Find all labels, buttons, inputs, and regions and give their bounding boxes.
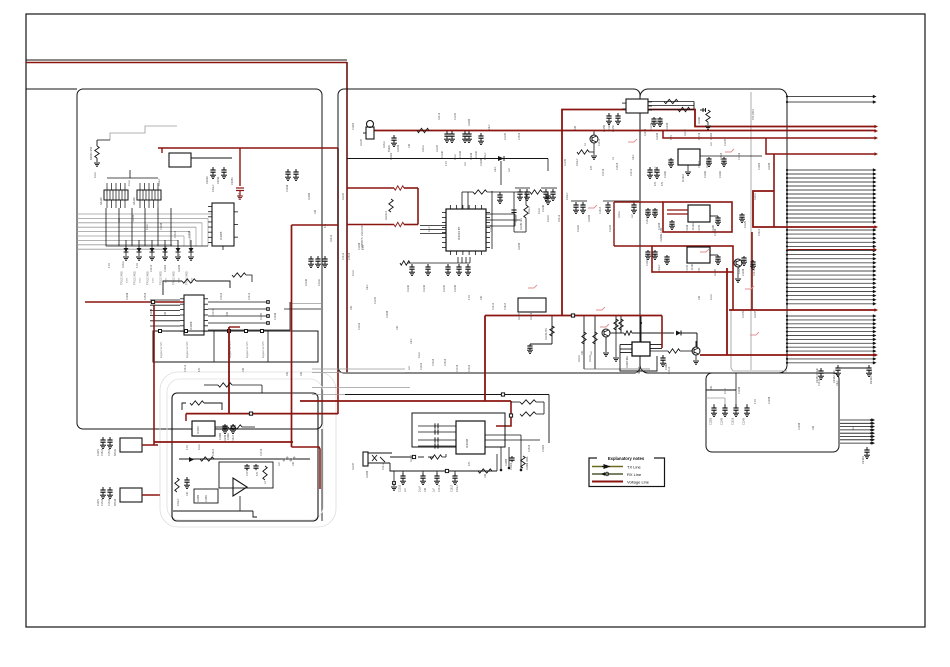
svg-text:0.01uF: 0.01uF: [158, 178, 161, 186]
svg-text:R1096 100K: R1096 100K: [526, 456, 529, 470]
svg-text:0.01uF: 0.01uF: [177, 498, 180, 506]
svg-text:R1311: R1311: [122, 260, 125, 268]
svg-text:C1071: C1071: [97, 498, 100, 506]
svg-text:R1107: R1107: [342, 192, 345, 200]
svg-text:IC1001 BT: IC1001 BT: [457, 226, 461, 240]
svg-text:10K: 10K: [710, 385, 713, 390]
svg-text:10uF: 10uF: [632, 154, 635, 160]
svg-text:R1107: R1107: [714, 268, 717, 276]
svg-text:1uF: 1uF: [464, 161, 467, 166]
svg-text:1uF: 1uF: [631, 213, 634, 218]
svg-text:C1515: C1515: [348, 252, 351, 260]
svg-text:R1005: R1005: [366, 470, 369, 478]
svg-text:4.7K: 4.7K: [362, 245, 365, 250]
svg-text:C1310: C1310: [101, 498, 104, 506]
svg-text:R1311: R1311: [754, 192, 757, 200]
svg-text:keypad sw KP5: keypad sw KP5: [262, 341, 265, 358]
svg-text:C1310: C1310: [490, 224, 493, 232]
svg-text:1K: 1K: [612, 157, 615, 160]
svg-text:10uF: 10uF: [494, 166, 497, 172]
svg-text:C1719: C1719: [602, 168, 605, 176]
svg-text:47K: 47K: [654, 181, 657, 186]
svg-text:RA100: RA100: [133, 197, 136, 205]
svg-text:C1412: C1412: [382, 462, 385, 470]
svg-text:10uF: 10uF: [428, 226, 431, 232]
svg-text:C1412: C1412: [598, 138, 601, 146]
svg-text:C1023: C1023: [710, 417, 713, 425]
svg-text:C1412: C1412: [753, 268, 756, 276]
svg-text:C1412: C1412: [438, 484, 441, 492]
svg-text:C1145: C1145: [721, 417, 724, 425]
svg-text:IC1007: IC1007: [196, 425, 200, 434]
svg-text:R1413: R1413: [330, 234, 333, 242]
svg-text:C1310: C1310: [399, 484, 402, 492]
svg-text:1uF: 1uF: [508, 167, 511, 172]
svg-text:R1311: R1311: [422, 144, 425, 152]
svg-text:C1208: C1208: [150, 308, 153, 316]
svg-text:R1209: R1209: [397, 144, 400, 152]
svg-text:C1176: C1176: [744, 220, 747, 228]
svg-text:10K: 10K: [396, 325, 399, 330]
svg-text:100: 100: [698, 295, 701, 300]
svg-text:Explanatory notes: Explanatory notes: [608, 456, 645, 461]
svg-text:C1208: C1208: [274, 312, 277, 320]
svg-text:R1413: R1413: [530, 312, 533, 320]
svg-text:C1145: C1145: [698, 224, 701, 232]
svg-text:R1160: R1160: [698, 116, 701, 124]
svg-text:C1133: C1133: [423, 284, 426, 292]
svg-text:C1310: C1310: [220, 292, 223, 300]
svg-text:C1023: C1023: [646, 258, 649, 266]
svg-text:0.01uF: 0.01uF: [658, 264, 661, 272]
svg-text:SP101: SP101: [114, 448, 117, 456]
svg-text:C1023: C1023: [542, 444, 545, 452]
svg-text:100: 100: [242, 367, 245, 372]
svg-text:0.1uF: 0.1uF: [454, 153, 457, 160]
svg-text:1uF: 1uF: [710, 141, 713, 146]
svg-text:C1150: C1150: [603, 124, 606, 132]
svg-text:C1310: C1310: [638, 366, 641, 374]
svg-text:R1209: R1209: [178, 264, 181, 272]
svg-text:R1107: R1107: [754, 310, 757, 318]
svg-text:R1101 0: R1101 0: [385, 210, 388, 220]
svg-text:C1011: C1011: [216, 176, 220, 184]
svg-text:TPD1E 0402: TPD1E 0402: [173, 271, 176, 285]
svg-text:C1145: C1145: [686, 264, 689, 272]
svg-text:C1023: C1023: [390, 152, 393, 160]
svg-text:C1412: C1412: [630, 168, 633, 176]
svg-text:100: 100: [812, 425, 815, 430]
svg-text:1uF: 1uF: [852, 425, 855, 430]
svg-text:R1209: R1209: [518, 242, 521, 250]
svg-text:1uF: 1uF: [278, 461, 281, 466]
svg-text:TX Line: TX Line: [627, 464, 642, 469]
svg-text:R1107: R1107: [360, 138, 363, 146]
svg-text:0.1uF: 0.1uF: [419, 485, 422, 492]
svg-text:C1123: C1123: [609, 224, 612, 232]
svg-text:100: 100: [164, 311, 167, 316]
svg-text:4.7K: 4.7K: [445, 161, 448, 166]
svg-text:0.1uF: 0.1uF: [94, 171, 97, 178]
svg-text:C1412: C1412: [184, 364, 187, 372]
svg-text:C1719: C1719: [738, 152, 741, 160]
svg-text:TPD1E 0402: TPD1E 0402: [160, 271, 163, 285]
svg-text:TPD1E 0402: TPD1E 0402: [186, 271, 189, 285]
svg-text:C1515: C1515: [164, 250, 167, 258]
svg-text:1uF: 1uF: [433, 487, 436, 492]
svg-text:1uF: 1uF: [404, 487, 407, 492]
svg-text:10uF: 10uF: [654, 166, 657, 172]
svg-text:C1023: C1023: [710, 132, 713, 140]
svg-text:R1209: R1209: [768, 162, 771, 170]
svg-text:C1515: C1515: [616, 162, 619, 170]
svg-text:100: 100: [484, 473, 487, 478]
svg-text:Voltage Line: Voltage Line: [627, 479, 650, 484]
svg-text:R1140 47K: R1140 47K: [545, 328, 548, 340]
svg-text:C1617: C1617: [101, 448, 104, 456]
svg-text:R1413: R1413: [438, 112, 441, 120]
svg-text:R1107: R1107: [518, 312, 521, 320]
svg-text:RA100: RA100: [100, 197, 103, 205]
svg-text:TPD1E 0402: TPD1E 0402: [134, 271, 137, 285]
svg-text:C1515: C1515: [108, 448, 111, 456]
svg-text:C1121: C1121: [547, 214, 550, 222]
svg-text:1uF: 1uF: [590, 350, 593, 355]
svg-text:R1413: R1413: [558, 214, 561, 222]
svg-text:C1080: C1080: [219, 432, 222, 440]
svg-text:C1310: C1310: [108, 498, 111, 506]
svg-text:47K: 47K: [178, 253, 181, 258]
svg-text:0.1uF: 0.1uF: [128, 179, 131, 186]
svg-text:0.01uF: 0.01uF: [576, 158, 579, 166]
svg-text:C1131: C1131: [318, 278, 321, 286]
svg-text:C1310: C1310: [432, 358, 435, 366]
svg-text:R1311: R1311: [383, 140, 386, 148]
svg-text:C1081: C1081: [227, 432, 230, 440]
svg-text:10K: 10K: [186, 491, 189, 496]
svg-text:C1412: C1412: [818, 378, 821, 386]
svg-text:R1067 68K: R1067 68K: [626, 356, 629, 368]
svg-text:C1071: C1071: [97, 448, 100, 456]
svg-text:R1107: R1107: [352, 462, 355, 470]
svg-text:10K: 10K: [292, 461, 295, 466]
svg-text:C1208: C1208: [738, 386, 741, 394]
svg-text:C1617: C1617: [599, 206, 602, 214]
svg-text:keypad sw KP4: keypad sw KP4: [246, 341, 249, 358]
svg-text:C1010: C1010: [205, 176, 209, 184]
svg-text:C1617: C1617: [504, 302, 507, 310]
svg-text:R1005: R1005: [588, 214, 591, 222]
svg-text:R1005: R1005: [308, 192, 311, 200]
svg-text:R1005: R1005: [706, 160, 709, 168]
svg-text:10K: 10K: [286, 371, 289, 376]
svg-text:C1023: C1023: [352, 122, 355, 130]
svg-text:C1719: C1719: [260, 448, 263, 456]
svg-text:100: 100: [226, 311, 229, 316]
svg-text:C1145: C1145: [564, 158, 567, 166]
svg-text:10K: 10K: [118, 217, 121, 222]
svg-text:C1023: C1023: [164, 264, 167, 272]
svg-text:47K: 47K: [661, 181, 664, 186]
svg-text:C1134: C1134: [443, 284, 446, 292]
svg-text:4.7K: 4.7K: [108, 263, 111, 268]
svg-text:C1208: C1208: [188, 230, 191, 238]
svg-text:0.1uF: 0.1uF: [198, 443, 201, 450]
svg-text:C1617: C1617: [451, 484, 454, 492]
svg-text:0.1uF: 0.1uF: [146, 223, 149, 230]
svg-text:10uF: 10uF: [410, 338, 413, 344]
svg-text:R1209: R1209: [656, 132, 659, 140]
svg-text:C1145: C1145: [650, 122, 653, 130]
svg-text:47K: 47K: [590, 165, 593, 170]
svg-text:keypad sw KP2: keypad sw KP2: [186, 341, 189, 358]
svg-text:0.01uF: 0.01uF: [484, 152, 487, 160]
svg-text:R2103 100K: R2103 100K: [869, 369, 873, 384]
svg-text:C1515: C1515: [144, 292, 147, 300]
svg-text:C1719: C1719: [212, 308, 215, 316]
svg-text:C1515: C1515: [528, 444, 531, 452]
svg-text:IC1006: IC1006: [189, 321, 193, 330]
svg-text:C1617: C1617: [232, 434, 235, 442]
svg-text:10uF: 10uF: [488, 124, 491, 130]
svg-text:IC1010: IC1010: [682, 174, 685, 182]
svg-text:C1023: C1023: [758, 162, 761, 170]
svg-text:R1107: R1107: [684, 128, 687, 136]
svg-text:B1001: B1001: [388, 144, 391, 152]
svg-text:C1412: C1412: [668, 366, 671, 374]
svg-text:C1051: C1051: [230, 177, 234, 185]
svg-text:R1001 47K: R1001 47K: [89, 147, 93, 160]
svg-text:4.7K: 4.7K: [468, 295, 471, 300]
svg-text:C1175: C1175: [738, 266, 741, 274]
svg-text:0.01uF: 0.01uF: [212, 184, 215, 192]
svg-text:C1122: C1122: [577, 224, 580, 232]
svg-text:47K: 47K: [468, 461, 471, 466]
svg-text:C1412: C1412: [492, 302, 495, 310]
svg-text:10K: 10K: [581, 350, 584, 355]
svg-text:C1208: C1208: [686, 224, 689, 232]
svg-text:C1106: C1106: [542, 204, 545, 212]
svg-text:1uF: 1uF: [408, 365, 411, 370]
svg-text:R1311: R1311: [618, 210, 621, 218]
svg-text:R1105 10K: R1105 10K: [520, 218, 523, 230]
svg-text:C1104: C1104: [475, 150, 478, 158]
svg-text:C1145: C1145: [724, 138, 727, 146]
svg-text:C1208: C1208: [470, 152, 473, 160]
svg-text:0.1uF: 0.1uF: [418, 351, 421, 358]
svg-text:C1412: C1412: [150, 264, 153, 272]
svg-text:47K: 47K: [324, 223, 327, 228]
svg-text:C1208: C1208: [358, 242, 361, 250]
svg-text:C1515: C1515: [732, 417, 735, 425]
svg-text:C1103: C1103: [459, 150, 462, 158]
svg-text:4.7K: 4.7K: [186, 445, 189, 450]
svg-text:C1208: C1208: [658, 222, 661, 230]
svg-text:C1515: C1515: [720, 152, 723, 160]
svg-text:1K: 1K: [228, 369, 231, 372]
svg-text:C1120: C1120: [515, 214, 518, 222]
svg-text:C1164: C1164: [719, 170, 722, 178]
svg-text:0.01uF: 0.01uF: [456, 484, 459, 492]
svg-text:C1310: C1310: [420, 362, 423, 370]
svg-text:C1208: C1208: [714, 228, 717, 236]
svg-text:C1719: C1719: [698, 132, 701, 140]
svg-text:10K: 10K: [480, 295, 483, 300]
svg-text:0.1uF: 0.1uF: [352, 269, 355, 276]
svg-text:C1163: C1163: [704, 170, 707, 178]
svg-text:C1145: C1145: [454, 112, 457, 120]
svg-text:C1208: C1208: [386, 310, 389, 318]
svg-text:R1209: R1209: [132, 214, 135, 222]
svg-text:RX Line: RX Line: [627, 472, 642, 477]
svg-text:C1617: C1617: [238, 192, 241, 200]
svg-text:C1719: C1719: [456, 364, 459, 372]
svg-text:C1145: C1145: [742, 310, 745, 318]
svg-text:D103: D103: [166, 277, 168, 283]
svg-text:C1208: C1208: [286, 184, 289, 192]
svg-text:C1617: C1617: [758, 228, 761, 236]
svg-text:C1208: C1208: [480, 158, 483, 166]
svg-text:C1023: C1023: [510, 462, 513, 470]
svg-text:C1023: C1023: [698, 160, 701, 168]
svg-text:R1107: R1107: [436, 144, 439, 152]
svg-text:C1145: C1145: [743, 417, 746, 425]
svg-text:100: 100: [424, 487, 427, 492]
svg-text:0.1uF: 0.1uF: [724, 387, 727, 394]
svg-text:4.7K: 4.7K: [136, 263, 139, 268]
svg-text:0.01uF: 0.01uF: [566, 192, 569, 200]
svg-text:C1145: C1145: [260, 312, 263, 320]
svg-text:C1208: C1208: [608, 122, 611, 130]
svg-text:47K: 47K: [256, 471, 259, 476]
svg-text:100: 100: [314, 209, 317, 214]
svg-text:C1162: C1162: [664, 170, 667, 178]
svg-text:R1209: R1209: [666, 122, 669, 130]
svg-text:C1208: C1208: [644, 128, 647, 136]
svg-text:C1102: C1102: [441, 150, 444, 158]
svg-text:SP102: SP102: [114, 498, 117, 506]
svg-text:C1208: C1208: [798, 422, 801, 430]
svg-text:C1095: C1095: [505, 458, 508, 466]
svg-text:47K: 47K: [698, 267, 701, 272]
svg-text:1K: 1K: [584, 143, 587, 146]
svg-text:10K: 10K: [300, 371, 303, 376]
svg-text:IC1008: IC1008: [465, 439, 469, 448]
svg-text:4.7K: 4.7K: [670, 135, 673, 140]
svg-text:C1208: C1208: [768, 396, 771, 404]
svg-text:C1617: C1617: [212, 448, 215, 456]
svg-text:0.1uF: 0.1uF: [710, 293, 713, 300]
svg-text:C1412: C1412: [342, 252, 345, 260]
svg-text:TPD1E 0402: TPD1E 0402: [121, 271, 124, 285]
svg-text:C1310: C1310: [468, 364, 471, 372]
svg-text:IC1011: IC1011: [692, 222, 695, 230]
svg-text:47K: 47K: [198, 367, 201, 372]
svg-text:D104: D104: [179, 277, 181, 283]
svg-text:1K: 1K: [264, 481, 267, 484]
svg-text:R1090: R1090: [197, 494, 200, 502]
svg-text:100: 100: [574, 125, 577, 130]
svg-text:D102: D102: [153, 277, 155, 283]
svg-text:CN1002: CN1002: [751, 109, 755, 120]
svg-text:10uF: 10uF: [366, 284, 369, 290]
svg-text:C1515: C1515: [174, 230, 177, 238]
svg-text:10K: 10K: [350, 305, 353, 310]
svg-text:C1132: C1132: [407, 284, 410, 292]
svg-text:C1617: C1617: [646, 216, 649, 224]
svg-text:C1208: C1208: [160, 222, 163, 230]
svg-text:4.7K: 4.7K: [754, 399, 757, 404]
svg-text:C1151: C1151: [612, 124, 615, 132]
svg-text:C1135: C1135: [454, 284, 457, 292]
svg-text:D100: D100: [127, 277, 129, 283]
svg-text:C1091: C1091: [205, 494, 208, 502]
svg-text:C1515: C1515: [444, 358, 447, 366]
svg-text:IC1005: IC1005: [219, 231, 223, 240]
svg-text:D101: D101: [140, 277, 142, 283]
svg-text:C1412: C1412: [248, 292, 251, 300]
svg-text:0.1uF: 0.1uF: [538, 207, 541, 214]
svg-text:IC1012: IC1012: [691, 262, 694, 270]
svg-text:0.01uF: 0.01uF: [528, 206, 531, 214]
svg-text:C1310: C1310: [358, 322, 361, 330]
svg-text:R1209: R1209: [224, 434, 227, 442]
svg-text:1uF: 1uF: [500, 195, 503, 200]
svg-text:keypad sw KP1: keypad sw KP1: [160, 341, 163, 358]
svg-text:C1719: C1719: [246, 468, 249, 476]
svg-text:C1208: C1208: [742, 268, 745, 276]
svg-text:C1515: C1515: [518, 132, 521, 140]
svg-text:C1145: C1145: [504, 132, 507, 140]
svg-text:R1005: R1005: [468, 118, 471, 126]
svg-text:10uF: 10uF: [836, 380, 839, 386]
svg-text:R1107: R1107: [410, 454, 413, 462]
svg-text:C1130: C1130: [305, 278, 308, 286]
svg-text:100: 100: [408, 143, 411, 148]
svg-text:C1145: C1145: [374, 296, 377, 304]
svg-text:C2104: C2104: [861, 456, 865, 464]
svg-text:C1208: C1208: [126, 292, 129, 300]
